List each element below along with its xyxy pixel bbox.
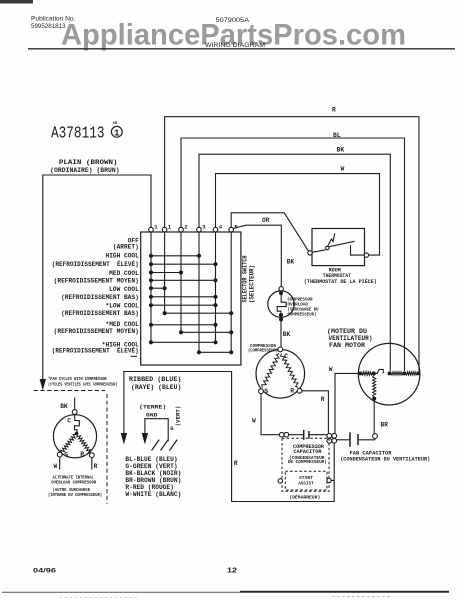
label PLAIN (BROWN) / (ORDINAIRE) (BRUN) bbox=[50, 159, 119, 174]
svg-text:BK-BLACK (NOIR): BK-BLACK (NOIR) bbox=[125, 470, 181, 477]
wire BK: terminal 3 to fan motor bbox=[199, 154, 390, 371]
alternate compressor top terminal bbox=[72, 410, 77, 415]
label start assist bbox=[298, 475, 314, 487]
selector switch box bbox=[141, 232, 241, 365]
svg-text:VENTILATEUR): VENTILATEUR) bbox=[329, 335, 373, 342]
svg-text:MED COOL: MED COOL bbox=[109, 270, 139, 277]
note fan cycles with compressor bbox=[48, 377, 118, 388]
svg-text:5079005A: 5079005A bbox=[216, 17, 250, 24]
room thermostat box bbox=[312, 229, 365, 266]
svg-text:SELECTOR SWITCH: SELECTOR SWITCH bbox=[241, 255, 248, 302]
svg-text:1: 1 bbox=[114, 128, 120, 138]
wire BR: fan motor to fan capacitor bbox=[373, 401, 378, 439]
compressor body bbox=[256, 350, 305, 399]
alternate wires W R bbox=[60, 457, 92, 470]
wire R: cluster to ribbed blue cord bbox=[124, 372, 334, 502]
alternate winding C-S bbox=[61, 435, 76, 453]
wire BK alt bbox=[74, 398, 76, 410]
svg-text:R-RED (ROUGE): R-RED (ROUGE) bbox=[125, 484, 173, 491]
fan capacitor bbox=[337, 432, 375, 446]
ground wire bracket bbox=[142, 419, 169, 445]
svg-text:(DÉMARREUR): (DÉMARREUR) bbox=[289, 493, 320, 500]
alternate compressor body bbox=[53, 415, 96, 458]
alternate winding C-R bbox=[77, 435, 91, 454]
corner scan smudge bbox=[0, 0, 33, 4]
svg-text:(ARRET): (ARRET) bbox=[113, 244, 139, 251]
svg-text:(CONDENSATEUR DU VENTILATEUR): (CONDENSATEUR DU VENTILATEUR) bbox=[340, 457, 430, 463]
svg-text:W: W bbox=[329, 366, 333, 373]
svg-text:12: 12 bbox=[227, 568, 237, 575]
svg-text:(SELECTEUR): (SELECTEUR) bbox=[249, 265, 256, 303]
publication number label bbox=[31, 16, 76, 31]
svg-text:R: R bbox=[332, 107, 336, 114]
svg-text:COMPRESSOR: COMPRESSOR bbox=[250, 345, 276, 349]
compressor capacitor dashed outline bbox=[282, 438, 329, 491]
label C S R bbox=[264, 353, 294, 395]
svg-text:C: C bbox=[67, 418, 71, 425]
wire R: compressor R to capacitor cluster bbox=[302, 391, 328, 434]
svg-text:(REFROIDISSEMENT BAS): (REFROIDISSEMENT BAS) bbox=[61, 310, 139, 317]
selector position labels bbox=[52, 238, 139, 355]
svg-text:(REFROIDISSEMENT ÉLEVÉ): (REFROIDISSEMENT ÉLEVÉ) bbox=[52, 348, 139, 355]
label compressor bbox=[248, 345, 278, 354]
wire color legend bbox=[125, 456, 181, 498]
overload bimetal element bbox=[277, 295, 286, 313]
svg-text:HIGH COOL: HIGH COOL bbox=[106, 253, 140, 260]
wire OR: terminal 5 to room thermostat bbox=[231, 213, 308, 251]
svg-text:(REFROIDISSEMENT BAS): (REFROIDISSEMENT BAS) bbox=[61, 294, 139, 301]
svg-text:BK: BK bbox=[287, 258, 295, 265]
svg-text:R: R bbox=[234, 460, 238, 467]
svg-text:(COMPRESSEUR): (COMPRESSEUR) bbox=[248, 349, 278, 354]
svg-text:BK: BK bbox=[60, 403, 68, 410]
svg-text:(INTERNE DU COMPRESSEUR): (INTERNE DU COMPRESSEUR) bbox=[48, 493, 102, 498]
selector switch vertical label bbox=[241, 255, 255, 303]
svg-text:COMPRESSEUR): COMPRESSEUR) bbox=[288, 312, 317, 318]
svg-text:C: C bbox=[284, 353, 288, 360]
selector contact rows with junction dots bbox=[149, 254, 233, 355]
svg-text:BK: BK bbox=[283, 331, 291, 338]
svg-text:GND: GND bbox=[146, 412, 158, 419]
svg-text:W: W bbox=[252, 418, 256, 425]
svg-text:*FAN CYCLES WITH COMPRESSOR: *FAN CYCLES WITH COMPRESSOR bbox=[48, 377, 107, 382]
svg-text:BR-BROWN (BRUN): BR-BROWN (BRUN) bbox=[125, 477, 181, 484]
svg-text:W: W bbox=[341, 166, 345, 173]
svg-text:R: R bbox=[321, 396, 325, 403]
ground symbol bbox=[152, 440, 178, 451]
compressor overload body bbox=[268, 291, 294, 317]
schematic number A378113 bbox=[51, 125, 105, 144]
thermostat switch contacts bbox=[312, 233, 364, 255]
footer scan specks bbox=[60, 597, 140, 599]
svg-text:(CYCLES VENTILES AVEC COMPRESS: (CYCLES VENTILES AVEC COMPRESSEUR) bbox=[48, 383, 118, 388]
svg-text:W-WHITE (BLANC): W-WHITE (BLANC) bbox=[125, 491, 181, 498]
fan motor winding bbox=[362, 369, 418, 397]
svg-text:(VERT): (VERT) bbox=[174, 406, 181, 427]
compressor terminal S bbox=[259, 389, 264, 394]
label alternate internal overload compressor bbox=[48, 476, 102, 498]
svg-text:*LOW COOL: *LOW COOL bbox=[106, 303, 140, 310]
labels W R (alternate leads) bbox=[54, 463, 98, 470]
start assist dashed box bbox=[285, 471, 327, 490]
overload top terminal bbox=[279, 287, 283, 291]
thermostat left terminal bbox=[308, 251, 312, 255]
svg-text:G-GREEN (VERT): G-GREEN (VERT) bbox=[125, 463, 177, 470]
wire BK: terminal 5 to compressor overload bbox=[233, 225, 281, 286]
svg-text:S: S bbox=[64, 451, 68, 458]
wire W: terminal 4 to thermostat bbox=[216, 174, 380, 256]
alternate compressor dashed border bbox=[34, 391, 107, 504]
svg-text:R: R bbox=[290, 387, 294, 394]
label (TERRE) GND bbox=[139, 403, 166, 418]
svg-text:04/96: 04/96 bbox=[33, 568, 56, 575]
label compressor overload bbox=[288, 297, 319, 318]
capacitor wire terminals bbox=[279, 432, 284, 437]
svg-text:G: G bbox=[170, 426, 173, 432]
labels S R (alternate) bbox=[64, 451, 84, 459]
svg-text:BL: BL bbox=[333, 132, 341, 139]
svg-text:DE COMPRESSEUR): DE COMPRESSEUR) bbox=[288, 460, 327, 465]
svg-text:CAPACITOR: CAPACITOR bbox=[294, 449, 323, 455]
wire R: terminal 1 loop to fan motor bbox=[165, 117, 419, 371]
wire BK: overload to compressor C bbox=[280, 321, 282, 347]
wire W: fan motor to cluster bbox=[335, 373, 358, 433]
svg-text:OR: OR bbox=[262, 217, 270, 224]
svg-text:R: R bbox=[94, 463, 98, 470]
svg-text:(REFROIDISSEMENT MOYEN): (REFROIDISSEMENT MOYEN) bbox=[54, 328, 139, 335]
svg-text:BR: BR bbox=[381, 422, 389, 429]
svg-text:BK: BK bbox=[337, 147, 345, 154]
svg-text:*MED COOL: *MED COOL bbox=[106, 321, 140, 328]
svg-text:START: START bbox=[299, 475, 313, 481]
svg-text:FAN CAPACITOR: FAN CAPACITOR bbox=[350, 450, 393, 456]
alternate terminal S bbox=[57, 452, 62, 457]
compressor terminal R bbox=[297, 388, 302, 393]
fan motor body bbox=[358, 343, 420, 405]
svg-text:(MOTEUR DU: (MOTEUR DU bbox=[327, 328, 367, 335]
label RIBBED (BLUE) / (RAYE) (BLEU) bbox=[129, 376, 181, 391]
svg-text:WIRING DIAGRAM: WIRING DIAGRAM bbox=[205, 42, 265, 49]
footer rule bbox=[2, 591, 449, 593]
svg-text:SM.: SM. bbox=[113, 122, 120, 126]
svg-text:S: S bbox=[264, 388, 268, 395]
wire W: compressor S to capacitor bbox=[261, 394, 280, 435]
svg-text:LOW COOL: LOW COOL bbox=[109, 286, 139, 293]
svg-text:RIBBED (BLUE): RIBBED (BLUE) bbox=[129, 376, 181, 383]
svg-text:(REFROIDISSEMENT MOYEN): (REFROIDISSEMENT MOYEN) bbox=[54, 277, 139, 284]
capacitor terminal cluster bbox=[327, 433, 337, 443]
svg-text:(RAYE) (BLEU): (RAYE) (BLEU) bbox=[131, 384, 181, 391]
footnote marker under ELEVE bbox=[131, 355, 138, 357]
selector terminals 1 1 2 3 4 5 bbox=[149, 223, 239, 232]
label fan capacitor bbox=[340, 450, 430, 462]
wire brown: selector terminal 1 to cord arrow bbox=[40, 175, 151, 391]
svg-text:R: R bbox=[80, 451, 84, 458]
fan motor label bbox=[327, 328, 373, 349]
svg-text:BL-BLUE (BLEU): BL-BLUE (BLEU) bbox=[125, 456, 177, 463]
svg-text:(THERMOSTAT DE LA PIÈCE): (THERMOSTAT DE LA PIÈCE) bbox=[304, 278, 377, 285]
start assist terminals bbox=[278, 479, 282, 483]
fan motor winding taps bbox=[358, 371, 420, 400]
svg-text:ASSIST: ASSIST bbox=[298, 480, 314, 486]
compressor winding C-S bbox=[262, 354, 280, 388]
revision mark circled 1 bbox=[111, 122, 122, 138]
thermostat right terminal bbox=[364, 253, 368, 257]
label room thermostat bbox=[304, 268, 377, 286]
header rule bbox=[28, 48, 455, 50]
svg-text:(TERRE): (TERRE) bbox=[139, 403, 166, 410]
svg-text:PLAIN (BROWN): PLAIN (BROWN) bbox=[59, 159, 118, 166]
overload bottom terminal bbox=[279, 313, 283, 317]
compressor terminal C bbox=[278, 347, 283, 352]
svg-text:OVERLOAD COMPRESSOR: OVERLOAD COMPRESSOR bbox=[51, 481, 96, 486]
alternate overload element bbox=[75, 414, 80, 432]
compressor winding C-R bbox=[281, 354, 299, 388]
svg-text:W: W bbox=[54, 463, 58, 470]
compressor capacitor bbox=[289, 430, 327, 440]
selector column wires bbox=[151, 232, 231, 352]
alternate terminal R bbox=[89, 453, 94, 458]
wire BL: terminal 2 to fan motor bbox=[181, 138, 405, 371]
svg-text:(ORDINAIRE) (BRUN): (ORDINAIRE) (BRUN) bbox=[50, 167, 119, 174]
svg-text:FAN MOTOR: FAN MOTOR bbox=[329, 342, 365, 349]
label compressor capacitor bbox=[288, 444, 327, 465]
svg-text:(REFROIDISSEMENT ÉLEVÉ): (REFROIDISSEMENT ÉLEVÉ) bbox=[52, 261, 139, 268]
svg-text:A378113: A378113 bbox=[51, 125, 105, 144]
